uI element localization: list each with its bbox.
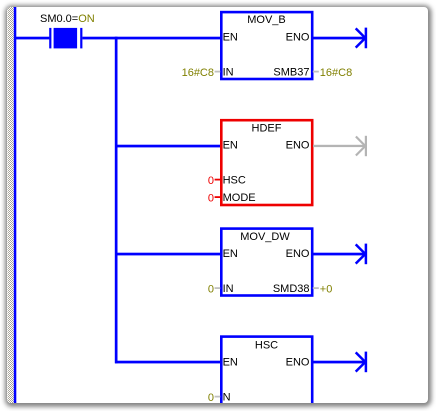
svg-text:ENO: ENO bbox=[286, 32, 310, 44]
branch wire to HSC EN bbox=[115, 361, 220, 364]
svg-text:SMB37: SMB37 bbox=[273, 67, 309, 79]
svg-text:ENO: ENO bbox=[286, 357, 310, 369]
branch wire to HDEF EN bbox=[115, 145, 220, 148]
svg-text:16#C8: 16#C8 bbox=[320, 67, 352, 79]
svg-text:EN: EN bbox=[223, 31, 238, 43]
svg-text:HDEF: HDEF bbox=[252, 122, 282, 134]
svg-text:+0: +0 bbox=[320, 284, 333, 296]
svg-text:MOV_B: MOV_B bbox=[247, 14, 286, 26]
arrow rung3 open continuation bbox=[356, 244, 366, 265]
svg-text:EN: EN bbox=[223, 139, 238, 151]
svg-text:IN: IN bbox=[223, 283, 234, 295]
svg-text:N: N bbox=[223, 391, 231, 403]
box HDEF body (error red) bbox=[221, 120, 312, 205]
box HDEF MODE value tick (red) bbox=[215, 196, 221, 198]
svg-text:EN: EN bbox=[223, 248, 238, 260]
svg-text:0: 0 bbox=[208, 392, 214, 404]
contact SM0.0 right bar bbox=[80, 28, 82, 49]
wire rung1 from contact to MOV_B block bbox=[82, 37, 220, 40]
left power rail bbox=[14, 7, 16, 403]
svg-text:ENO: ENO bbox=[286, 248, 310, 260]
svg-text:SM0.0=ON: SM0.0=ON bbox=[40, 13, 95, 25]
wire MOV_DW ENO output bbox=[313, 253, 366, 256]
box MOV_DW OUT value tick bbox=[313, 287, 319, 289]
wire HSC ENO output bbox=[313, 361, 366, 364]
arrow rung4 open continuation bbox=[356, 352, 366, 373]
box HSC N value tick bbox=[215, 396, 221, 398]
vertical branch rail bbox=[115, 37, 118, 364]
branch wire to MOV_DW EN bbox=[115, 253, 220, 256]
svg-text:0: 0 bbox=[208, 193, 214, 205]
svg-text:HSC: HSC bbox=[255, 339, 278, 351]
box HDEF HSC value tick (red) bbox=[215, 179, 221, 181]
svg-text:SMD38: SMD38 bbox=[273, 283, 310, 295]
box MOV_DW IN value tick bbox=[215, 287, 221, 289]
arrow rung1 open continuation bbox=[356, 28, 366, 49]
svg-text:HSC: HSC bbox=[223, 174, 246, 186]
wire rung1 from rail to contact bbox=[14, 37, 49, 40]
box HSC body (bottom cut by viewport) bbox=[221, 337, 312, 411]
svg-text:0: 0 bbox=[208, 175, 214, 187]
svg-text:0: 0 bbox=[208, 284, 214, 296]
box MOV_B OUT value tick bbox=[313, 71, 319, 73]
contact SM0.0 left bar bbox=[49, 28, 51, 49]
arrow rung2 open continuation (gray) bbox=[356, 136, 366, 156]
svg-text:ENO: ENO bbox=[286, 140, 310, 152]
svg-text:EN: EN bbox=[223, 356, 238, 368]
box MOV_B body bbox=[221, 12, 312, 79]
box MOV_DW body bbox=[221, 229, 312, 296]
svg-text:16#C8: 16#C8 bbox=[182, 67, 214, 79]
left margin dither column bbox=[8, 7, 14, 403]
wire MOV_B ENO output bbox=[313, 37, 366, 40]
box MOV_B IN value tick bbox=[215, 71, 221, 73]
svg-text:IN: IN bbox=[223, 66, 234, 78]
contact SM0.0 energized square bbox=[54, 28, 78, 49]
wire HDEF ENO output (gray, no power flow) bbox=[313, 145, 366, 147]
svg-text:MOV_DW: MOV_DW bbox=[240, 231, 290, 243]
svg-text:MODE: MODE bbox=[223, 192, 256, 204]
